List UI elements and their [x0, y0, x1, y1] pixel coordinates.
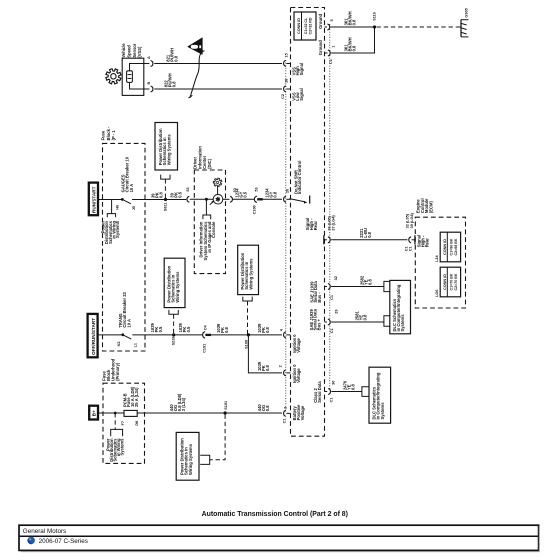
ECM dashed box	[415, 217, 465, 308]
power distribution reference box (above S218)	[164, 258, 185, 335]
svg-text:C4: C4	[203, 324, 207, 330]
svg-text:15: 15	[285, 53, 289, 57]
svg-text:29: 29	[335, 309, 339, 313]
trans indicator lamp	[210, 194, 223, 204]
wire C191 to module pin 4	[208, 334, 283, 336]
svg-text:S100: S100	[244, 340, 248, 349]
DLC schematics reference box B	[369, 367, 391, 423]
bracket to DLC box B	[362, 387, 369, 397]
engine control module ECM label	[415, 198, 433, 213]
junction node in DIC	[205, 198, 208, 201]
svg-text:Bus +: Bus +	[317, 318, 322, 330]
svg-text:0.8: 0.8	[350, 384, 355, 390]
svg-text:3: 3	[283, 407, 287, 409]
twisted pair symbol	[190, 51, 203, 98]
CONN ID table (module)	[294, 12, 316, 40]
wire 361 BK/WH pin1 to S116	[331, 27, 374, 53]
svg-text:(Primary): (Primary)	[115, 362, 120, 381]
svg-text:CONN ID: CONN ID	[297, 18, 301, 34]
svg-text:53: 53	[255, 187, 259, 191]
module pin 29 SAE J1939 Bus +	[309, 308, 339, 333]
svg-text:CONN ID: CONN ID	[443, 239, 447, 255]
svg-text:(VSS): (VSS)	[137, 46, 142, 58]
DIC drop to IP gages reference	[199, 199, 217, 260]
svg-text:Rear: Rear	[424, 238, 429, 248]
svg-text:C100: C100	[253, 205, 257, 214]
wire lamp to DIC out pin	[223, 198, 230, 200]
svg-text:S101: S101	[224, 401, 228, 410]
bracket to DLC box bus +	[384, 316, 390, 326]
svg-text:39 (LG4): 39 (LG4)	[410, 212, 414, 228]
dashed drop S101 to power dist reference	[210, 415, 225, 460]
svg-text:0.5: 0.5	[242, 191, 247, 197]
splice S116	[372, 12, 376, 28]
power distribution reference box (above S811)	[155, 123, 178, 200]
svg-text:26: 26	[285, 189, 289, 193]
svg-text:1: 1	[331, 45, 335, 47]
svg-text:C1: C1	[330, 398, 334, 403]
fuse block underhood dashed box	[103, 383, 145, 463]
svg-text:H6: H6	[115, 205, 119, 210]
footer globe icon	[27, 537, 34, 544]
dashed wire S116 to G305	[377, 26, 457, 28]
svg-text:C1: C1	[330, 328, 334, 333]
wire breaker to C191	[132, 334, 202, 336]
fuse block IP dashed box	[103, 143, 146, 351]
svg-text:2: 2	[278, 365, 282, 367]
module pin 26	[284, 189, 291, 203]
svg-text:General Motors: General Motors	[23, 528, 66, 535]
splice S100	[244, 333, 250, 349]
label 2581 YE 0.8	[354, 310, 367, 320]
svg-text:Wiring Systems: Wiring Systems	[248, 258, 253, 290]
svg-text:Ground: Ground	[318, 13, 323, 28]
svg-text:OFF/RUN/START: OFF/RUN/START	[91, 318, 96, 355]
svg-text:Systems: Systems	[119, 438, 124, 456]
wire breaker to S811	[132, 199, 186, 201]
svg-text:CONN ID: CONN ID	[443, 274, 447, 290]
svg-text:0.8: 0.8	[367, 279, 372, 285]
B+ feed box	[89, 406, 98, 420]
svg-text:0.8: 0.8	[265, 326, 270, 332]
svg-text:2006-07 C-Series: 2006-07 C-Series	[39, 538, 88, 545]
svg-text:S116: S116	[372, 12, 376, 21]
svg-text:10 A: 10 A	[129, 184, 134, 193]
module connector dotted line C1/C2 left	[285, 60, 287, 412]
ground G305	[457, 8, 469, 37]
splice S101	[224, 401, 229, 415]
wire 821 PU/WH	[154, 63, 282, 65]
svg-text:Voltage: Voltage	[300, 405, 305, 420]
svg-text:C1: C1	[329, 59, 333, 64]
svg-text:Bus -: Bus -	[317, 292, 322, 303]
module pin 5 Ground	[318, 13, 334, 30]
svg-text:0.8: 0.8	[362, 314, 367, 320]
svg-text:0.8: 0.8	[265, 365, 270, 371]
module pin 32 SAE J1939 Bus -	[309, 276, 338, 302]
DIC dashed box	[194, 170, 225, 274]
svg-text:C1: C1	[330, 295, 334, 300]
svg-text:(P - 1: (P - 1	[111, 130, 116, 141]
ECM pin 32/39	[404, 212, 415, 251]
svg-text:B+: B+	[92, 410, 97, 416]
module pin 2 Ignition 0 Voltage	[278, 364, 301, 383]
footer table	[19, 525, 539, 550]
svg-text:0.8: 0.8	[265, 405, 270, 411]
svg-text:0.8: 0.8	[351, 45, 356, 51]
ECM CONN ID table LG6	[435, 267, 461, 297]
svg-text:Voltage: Voltage	[296, 337, 301, 352]
svg-text:5: 5	[330, 19, 334, 21]
svg-text:A: A	[147, 56, 151, 59]
svg-text:Wiring Systems: Wiring Systems	[175, 271, 180, 303]
svg-text:Serial Data: Serial Data	[317, 381, 322, 403]
svg-text:RUN/START: RUN/START	[91, 186, 96, 213]
wire 2581 to DLC ref	[331, 321, 384, 323]
inline connector C191	[202, 324, 211, 352]
svg-text:32: 32	[334, 276, 338, 280]
wire fuse to module pin 3	[137, 412, 282, 414]
svg-text:Ground: Ground	[318, 40, 323, 55]
label 39 PK 0.5	[169, 191, 182, 197]
splice S218	[171, 333, 175, 345]
label 1234 GY 0.8	[265, 188, 278, 198]
label 2231 L-BU 0.8	[359, 228, 372, 238]
svg-text:C191: C191	[202, 344, 206, 353]
svg-text:0.5: 0.5	[186, 326, 191, 332]
power distribution reference box (S101)	[176, 432, 199, 480]
DIC connector pin 53 out	[230, 188, 237, 202]
RUN/START feed box	[89, 183, 98, 216]
svg-text:0.8: 0.8	[351, 19, 356, 25]
wire OFF/RUN/START to breaker	[99, 334, 122, 336]
svg-text:C1: C1	[409, 246, 413, 251]
splice S811	[163, 198, 167, 211]
svg-text:J5: J5	[132, 206, 136, 210]
transmission/powertrain control module (dashed box)	[291, 8, 325, 437]
VSS body box	[122, 58, 144, 95]
svg-text:0.8: 0.8	[273, 191, 278, 197]
label 440 OG 0.8(LD8) 3(L34)	[169, 393, 186, 411]
branch S100 down to pin 2	[248, 335, 282, 373]
inline connector C100	[253, 187, 263, 214]
svg-text:C2=32 RD: C2=32 RD	[308, 17, 312, 34]
svg-text:0.5: 0.5	[158, 326, 163, 332]
wire 822 PU/WH	[154, 88, 282, 90]
wire RUN/START to breaker	[98, 199, 121, 201]
svg-text:C1=96 BK: C1=96 BK	[449, 238, 453, 255]
svg-text:Signal: Signal	[299, 88, 304, 100]
label 1039 PK 0.8 branch	[257, 361, 270, 371]
svg-text:10 A: 10 A	[126, 319, 131, 328]
wire 2231 signal high rear	[331, 239, 407, 241]
TRANS circuit breaker	[117, 291, 138, 347]
svg-text:Rear: Rear	[313, 221, 318, 231]
module pin 15 VSS High Signal	[284, 53, 305, 75]
Do Not Shift Indicator Control internal driver	[290, 161, 310, 204]
svg-text:Systems: Systems	[380, 402, 385, 420]
svg-text:0.8: 0.8	[173, 55, 178, 61]
svg-text:4: 4	[279, 328, 283, 331]
svg-text:Speed: Speed	[127, 45, 132, 58]
svg-text:Vehicle: Vehicle	[121, 43, 126, 58]
fuse block IP label	[101, 126, 116, 140]
svg-text:F7: F7	[121, 421, 125, 425]
ECM CONN ID table L34	[435, 232, 461, 262]
svg-text:K2: K2	[117, 342, 121, 347]
label 2582 YE 0.8	[359, 275, 372, 285]
label 361 BK/WH 0.8 upper	[343, 11, 356, 25]
svg-text:Indicator Control: Indicator Control	[297, 161, 302, 194]
svg-text:G305: G305	[464, 8, 468, 17]
fuse block underhood label	[101, 358, 120, 381]
svg-text:Console: Console	[211, 221, 216, 238]
driver information center DIC label	[193, 146, 212, 169]
label 39 PK 0.8	[150, 192, 163, 198]
svg-text:3 (L34): 3 (L34)	[181, 397, 186, 411]
svg-text:C1: C1	[282, 419, 286, 424]
footer shadow	[21, 551, 540, 553]
svg-text:S811: S811	[163, 203, 167, 212]
svg-text:C2=70 BK: C2=70 BK	[454, 273, 458, 290]
tap to power distribution reference (B+)	[105, 412, 124, 462]
wire 361 BK/WH pin5 to S116	[331, 26, 375, 28]
module pin 26/27 Signal High Rear out	[305, 215, 335, 245]
svg-text:0.5: 0.5	[177, 191, 182, 197]
vehicle speed sensor VSS B22	[106, 43, 150, 96]
bracket into box	[200, 455, 210, 464]
OFF/RUN/START feed box	[88, 314, 98, 357]
VSS pin B	[147, 82, 153, 93]
svg-text:0.8: 0.8	[367, 231, 372, 237]
label 1039 PK 0.5 right	[178, 322, 191, 332]
svg-text:C2: C2	[281, 94, 285, 99]
svg-text:L34: L34	[435, 254, 439, 261]
svg-text:D8: D8	[135, 421, 139, 426]
label 1039 PK 0.5 left	[150, 322, 163, 332]
power distribution reference box (above S100)	[238, 245, 259, 335]
wire C100 to module pin 26	[259, 198, 282, 200]
GAUGES circuit breaker	[115, 156, 136, 210]
wire 2470 class 2	[331, 391, 362, 393]
svg-text:Automatic Transmission Control: Automatic Transmission Control (Part 2 o…	[202, 511, 348, 518]
VSS gear icon	[106, 69, 121, 84]
svg-text:(ECM): (ECM)	[429, 201, 434, 214]
label 440 OG 0.8	[257, 404, 270, 412]
wire into DIC	[190, 198, 214, 200]
svg-text:(DIC): (DIC)	[207, 158, 212, 169]
svg-text:0.8: 0.8	[158, 192, 163, 198]
svg-text:B: B	[147, 82, 151, 85]
module pin 4 Ignition 0 Voltage	[279, 328, 301, 353]
svg-text:Signal: Signal	[299, 63, 304, 75]
svg-text:25 A (L34): 25 A (L34)	[134, 387, 139, 407]
module pin 3 Battery Positive Voltage	[282, 404, 305, 424]
module pin 1 Ground	[318, 40, 335, 64]
label 1234 GY 0.5	[234, 188, 247, 198]
svg-text:30: 30	[332, 381, 336, 385]
DIC connector pin 53 in	[186, 187, 190, 202]
svg-text:LG6: LG6	[435, 290, 439, 297]
label 2470 YE 0.8	[342, 380, 355, 390]
bracket to DLC box bus -	[384, 281, 390, 291]
svg-text:Sensor: Sensor	[132, 43, 137, 57]
svg-text:C1=32 CL: C1=32 CL	[304, 17, 308, 34]
tap to power distribution reference	[101, 200, 120, 245]
svg-text:18: 18	[284, 79, 288, 83]
wire B+ to fuse	[99, 412, 125, 414]
VSS sensor element	[127, 71, 133, 83]
module pin 18 VSS Low Signal	[281, 79, 304, 101]
svg-text:Voltage: Voltage	[296, 368, 301, 383]
label 1039 PK 0.8 left	[216, 323, 229, 333]
svg-text:0.8: 0.8	[171, 81, 176, 87]
fuse PCM-B	[121, 386, 139, 425]
svg-text:C2=58 BK: C2=58 BK	[454, 238, 458, 255]
label 821 PU/WH 0.8	[165, 48, 178, 62]
VSS internal leads	[130, 64, 150, 71]
svg-text:Wiring Systems: Wiring Systems	[166, 134, 171, 166]
svg-text:27 (LG4): 27 (LG4)	[332, 215, 336, 231]
svg-text:S218: S218	[171, 337, 175, 346]
warning triangle	[187, 37, 202, 55]
module connector dotted line C1 right	[329, 24, 331, 390]
wire 2582 to DLC ref	[331, 286, 384, 288]
svg-text:0.8: 0.8	[224, 326, 229, 332]
trans indicator gear icon	[213, 178, 222, 194]
label 822 PU/WH 0.8	[163, 73, 176, 87]
svg-text:Systems: Systems	[115, 220, 120, 238]
ECM Signal High Rear label	[417, 235, 430, 247]
svg-text:Systems: Systems	[400, 314, 405, 332]
svg-text:C1=70 BK: C1=70 BK	[449, 273, 453, 290]
module pin 30 Class 2 Serial Data	[313, 381, 336, 403]
wire DIC to C100	[233, 198, 254, 200]
svg-text:53: 53	[186, 187, 190, 191]
label 1039 PK 0.8 right	[257, 323, 270, 333]
VSS pin A	[147, 56, 153, 67]
label 361 BK/WH 0.8 lower	[343, 37, 356, 51]
svg-text:Wiring Systems: Wiring Systems	[188, 443, 193, 475]
DLC schematics reference box A	[390, 280, 411, 333]
svg-text:L1: L1	[134, 343, 138, 347]
